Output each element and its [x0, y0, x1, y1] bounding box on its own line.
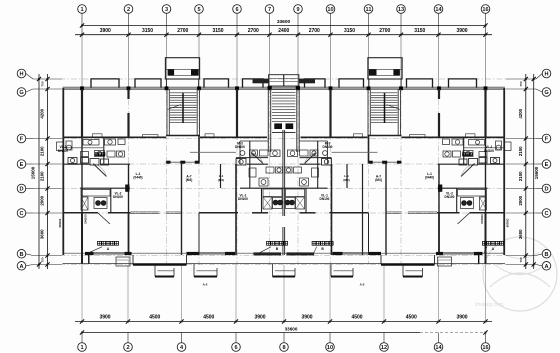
svg-text:2000: 2000 [39, 195, 44, 205]
svg-text:4500: 4500 [149, 315, 160, 321]
svg-text:3900: 3900 [456, 28, 467, 34]
svg-text:(M4): (M4) [186, 178, 193, 182]
svg-text:700: 700 [40, 257, 44, 262]
svg-text:3150: 3150 [142, 28, 153, 34]
svg-text:3900: 3900 [254, 315, 265, 321]
svg-text:DN100: DN100 [58, 149, 68, 153]
svg-text:4500: 4500 [406, 315, 417, 321]
svg-text:16: 16 [482, 7, 488, 13]
svg-text:14: 14 [435, 345, 442, 351]
svg-text:DN100: DN100 [84, 214, 88, 224]
svg-text:7: 7 [268, 7, 271, 13]
svg-text:10: 10 [327, 345, 333, 351]
svg-text:2100: 2100 [518, 171, 523, 181]
svg-text:3900: 3900 [456, 315, 467, 321]
svg-text:3150: 3150 [414, 28, 425, 34]
svg-text:A: A [19, 264, 23, 270]
svg-text:700: 700 [519, 257, 523, 262]
svg-text:F: F [20, 137, 24, 143]
svg-text:14: 14 [435, 7, 442, 13]
svg-text:3900: 3900 [99, 315, 110, 321]
svg-text:(M4): (M4) [343, 178, 349, 182]
svg-text:(M4): (M4) [218, 178, 224, 182]
svg-text:8: 8 [282, 345, 285, 351]
svg-text:3900: 3900 [100, 28, 111, 34]
svg-text:DN100: DN100 [506, 219, 510, 228]
svg-text:3600: 3600 [39, 229, 44, 239]
svg-text:DN100: DN100 [445, 195, 455, 199]
svg-text:15600: 15600 [534, 166, 539, 179]
svg-text:2: 2 [127, 7, 130, 13]
svg-text:(M4): (M4) [375, 178, 382, 182]
svg-text:2700: 2700 [177, 28, 188, 34]
svg-text:(0440): (0440) [133, 175, 142, 179]
svg-text:H: H [19, 72, 23, 78]
svg-text:D: D [19, 187, 23, 193]
svg-text:3150: 3150 [344, 28, 355, 34]
svg-text:12: 12 [381, 345, 387, 351]
svg-text:B: B [544, 252, 548, 258]
svg-text:33600: 33600 [285, 326, 298, 331]
svg-text:3600: 3600 [518, 229, 523, 239]
svg-text:DN100: DN100 [323, 145, 333, 149]
svg-text:DN100: DN100 [238, 197, 248, 201]
svg-text:2400: 2400 [278, 28, 289, 34]
svg-text:D: D [544, 187, 548, 193]
svg-text:G: G [544, 90, 548, 96]
svg-text:13: 13 [398, 7, 404, 13]
svg-text:2100: 2100 [39, 146, 44, 156]
svg-text:2100: 2100 [39, 171, 44, 181]
svg-text:F: F [545, 137, 549, 143]
svg-text:3900: 3900 [301, 315, 312, 321]
svg-text:DN100: DN100 [113, 195, 123, 199]
svg-text:H: H [544, 72, 548, 78]
svg-text:2000: 2000 [518, 195, 523, 205]
svg-text:4500: 4500 [203, 315, 214, 321]
svg-text:2: 2 [126, 345, 129, 351]
svg-text:4200: 4200 [39, 108, 44, 118]
svg-text:DN100: DN100 [235, 145, 245, 149]
svg-text:3: 3 [165, 7, 168, 13]
svg-text:700: 700 [40, 81, 44, 86]
svg-text:700: 700 [519, 81, 523, 86]
svg-text:C: C [544, 211, 548, 217]
svg-text:15600: 15600 [31, 166, 36, 179]
svg-text:2100: 2100 [518, 146, 523, 156]
svg-text:zhulong.com: zhulong.com [475, 302, 503, 308]
svg-text:5: 5 [197, 7, 200, 13]
svg-text:10: 10 [327, 7, 333, 13]
svg-text:6: 6 [235, 7, 238, 13]
svg-text:4200: 4200 [518, 108, 523, 118]
svg-text:2700: 2700 [248, 28, 259, 34]
svg-text:E: E [20, 162, 24, 168]
svg-text:4500: 4500 [351, 315, 362, 321]
svg-text:2700: 2700 [379, 28, 390, 34]
svg-text:2700: 2700 [309, 28, 320, 34]
svg-text:E: E [545, 162, 549, 168]
svg-text:9: 9 [296, 7, 299, 13]
svg-text:3150: 3150 [212, 28, 223, 34]
svg-text:(0440): (0440) [425, 175, 434, 179]
svg-text:G: G [19, 90, 23, 96]
svg-text:1: 1 [80, 345, 83, 351]
svg-text:1: 1 [80, 7, 83, 13]
svg-text:DN100: DN100 [320, 197, 330, 201]
svg-text:16: 16 [482, 345, 488, 351]
svg-text:DN100: DN100 [480, 214, 484, 224]
svg-text:11: 11 [366, 7, 372, 13]
svg-text:6: 6 [234, 345, 237, 351]
svg-text:C: C [19, 211, 23, 217]
svg-text:DN100: DN100 [484, 149, 494, 153]
svg-text:B: B [19, 252, 23, 258]
svg-text:A: A [544, 264, 548, 270]
svg-text:A-2: A-2 [360, 283, 365, 287]
svg-text:A-2: A-2 [203, 283, 208, 287]
svg-text:DN100: DN100 [58, 218, 62, 227]
svg-text:33600: 33600 [277, 19, 291, 25]
